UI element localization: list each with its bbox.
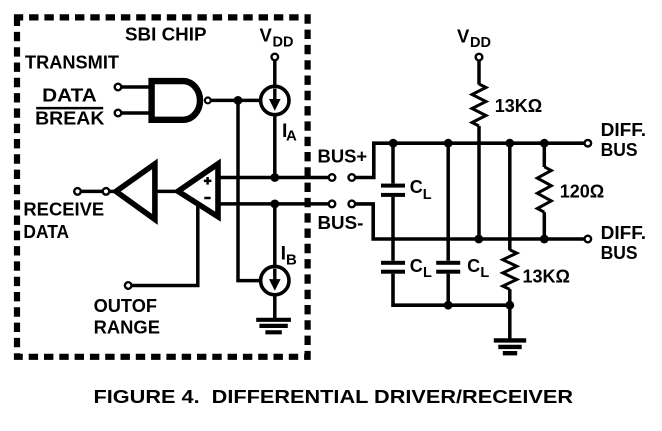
wire between RECEIVE terminals bbox=[81, 190, 103, 194]
junction dot R3/ground rail bbox=[505, 301, 514, 310]
wire R1 down to BUS- rail bbox=[477, 126, 481, 239]
svg-text:L: L bbox=[423, 265, 432, 281]
ground (external) bbox=[494, 340, 526, 353]
terminal DATA input bbox=[115, 84, 122, 91]
wire IB to ground bbox=[273, 295, 277, 320]
current source IA bbox=[261, 86, 289, 114]
terminal BUS+ chip side bbox=[329, 174, 336, 181]
terminal BUS- external side bbox=[349, 201, 356, 208]
wire VDD to R1 bbox=[477, 61, 481, 85]
junction dot R3/BUS+ bbox=[505, 139, 514, 148]
junction dot R2/BUS+ bbox=[540, 139, 549, 148]
junction dot C3/ground rail bbox=[444, 301, 453, 310]
wire BUS- internal (comparator - input) bbox=[218, 202, 329, 206]
junction dot IA/BUS+ bbox=[270, 173, 279, 182]
wire terminal to buffer tip bbox=[109, 190, 118, 194]
svg-text:TRANSMIT: TRANSMIT bbox=[25, 53, 119, 73]
minus sign in comparator bbox=[204, 197, 210, 200]
wire NAND output down to IB bbox=[238, 100, 261, 280]
fraction bar between DATA and BREAK bbox=[36, 107, 103, 110]
wire BUS+ external rail bbox=[355, 143, 584, 177]
svg-text:C: C bbox=[467, 256, 480, 276]
terminal OUTOF RANGE bbox=[125, 282, 132, 289]
terminal DIFF BUS top bbox=[585, 140, 592, 147]
svg-text:B: B bbox=[286, 251, 297, 268]
wire IB to BUS- line bbox=[273, 204, 277, 267]
wire buffer to comparator tip bbox=[155, 190, 178, 194]
junction dot R2/BUS- bbox=[540, 235, 549, 244]
wire BREAK input to NAND bbox=[121, 111, 150, 115]
nand gate U1 body bbox=[152, 81, 200, 120]
svg-text:SBI CHIP: SBI CHIP bbox=[125, 25, 207, 45]
wire BUS- external rail bbox=[355, 204, 584, 239]
capacitor C2 (CL bottom-left) bbox=[381, 261, 405, 265]
svg-text:BREAK: BREAK bbox=[35, 109, 104, 129]
junction dot IB/BUS- bbox=[270, 200, 279, 209]
svg-text:V: V bbox=[457, 25, 470, 46]
wire DATA input to NAND bbox=[121, 85, 150, 89]
svg-text:FIGURE 4. DIFFERENTIAL DRIVER: FIGURE 4. DIFFERENTIAL DRIVER/RECEIVER bbox=[94, 386, 574, 407]
svg-text:BUS: BUS bbox=[601, 243, 638, 263]
comparator triangle bbox=[178, 164, 218, 217]
svg-text:BUS: BUS bbox=[601, 140, 638, 160]
svg-text:BUS-: BUS- bbox=[318, 213, 364, 233]
wire BUS+ internal (comparator + input) bbox=[218, 176, 329, 180]
plus sign in comparator bbox=[204, 177, 212, 185]
svg-text:C: C bbox=[410, 256, 423, 276]
wire C2 bottom to ground rail bbox=[393, 274, 510, 306]
svg-text:13KΩ: 13KΩ bbox=[523, 266, 570, 286]
capacitor C1 (CL top) bbox=[391, 143, 395, 183]
junction dot at NAND output bbox=[234, 96, 243, 105]
terminal VDD (chip) bbox=[272, 54, 279, 61]
svg-text:DD: DD bbox=[470, 35, 491, 51]
terminal BREAK input bbox=[115, 110, 122, 117]
junction dot R1/BUS- bbox=[474, 235, 483, 244]
buffer triangle (receive) bbox=[116, 164, 155, 220]
svg-text:C: C bbox=[410, 177, 423, 197]
wire NAND output to IA bbox=[211, 99, 261, 103]
svg-text:DIFF.: DIFF. bbox=[601, 120, 647, 140]
wire VDD to IA bbox=[273, 60, 277, 87]
svg-text:L: L bbox=[423, 187, 432, 203]
svg-text:RECEIVE: RECEIVE bbox=[23, 200, 104, 220]
svg-text:DATA: DATA bbox=[23, 222, 69, 242]
svg-text:OUTOF: OUTOF bbox=[94, 296, 157, 316]
svg-text:DIFF.: DIFF. bbox=[601, 223, 647, 243]
wire IA to BUS+ line bbox=[273, 115, 277, 178]
resistor R1 13K zigzag bbox=[472, 84, 486, 126]
svg-text:L: L bbox=[480, 265, 489, 281]
terminal RECEIVE DATA bbox=[74, 188, 81, 195]
svg-text:DD: DD bbox=[273, 34, 294, 50]
svg-text:RANGE: RANGE bbox=[94, 318, 160, 338]
svg-text:DATA: DATA bbox=[42, 85, 97, 105]
svg-text:A: A bbox=[286, 128, 297, 145]
resistor R2 120 ohm bbox=[543, 143, 547, 167]
capacitor C3 (CL bottom-mid) bbox=[446, 143, 450, 261]
wire C1 bottom to C2 top bbox=[391, 197, 395, 261]
svg-text:120Ω: 120Ω bbox=[560, 182, 604, 202]
current source IB bbox=[261, 266, 289, 294]
svg-text:V: V bbox=[260, 25, 273, 46]
junction dot cap3/BUS+ bbox=[444, 139, 453, 148]
ground (chip) bbox=[256, 320, 291, 333]
wire R3 to ground rail and ground bbox=[508, 289, 512, 339]
terminal VDD external bbox=[476, 54, 483, 61]
wire OUTOF RANGE to comparator bbox=[132, 205, 198, 286]
terminal BUS+ external side bbox=[349, 174, 356, 181]
svg-text:13KΩ: 13KΩ bbox=[495, 96, 542, 116]
svg-text:BUS+: BUS+ bbox=[318, 146, 368, 166]
junction dot cap1/BUS+ bbox=[389, 139, 398, 148]
nand gate U1 output bubble bbox=[205, 98, 211, 104]
terminal DIFF BUS bottom bbox=[585, 236, 592, 243]
dashed SBI chip boundary bbox=[17, 17, 308, 356]
terminal BUS- chip side bbox=[329, 201, 336, 208]
wire C3 bottom to ground rail bbox=[446, 274, 450, 306]
resistor R3 13K (to ground) bbox=[508, 143, 512, 250]
